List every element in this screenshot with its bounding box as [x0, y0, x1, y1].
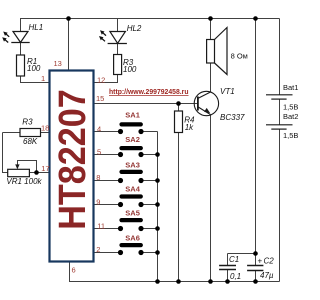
- svg-text:SA3: SA3: [125, 160, 140, 169]
- wire pin 13: [68, 19, 70, 71]
- svg-text:17: 17: [41, 164, 49, 173]
- svg-text:1: 1: [41, 74, 45, 83]
- labels SA1-SA6: [125, 111, 140, 243]
- svg-text:1,5B: 1,5B: [283, 131, 298, 140]
- svg-text:13: 13: [54, 59, 62, 68]
- svg-text:Bat1: Bat1: [283, 83, 298, 92]
- LED HL1 arrows: [2, 32, 9, 43]
- svg-text:http://www.299792458.ru: http://www.299792458.ru: [109, 87, 189, 96]
- svg-text:C1: C1: [229, 255, 239, 264]
- wire HL1 branch: [21, 19, 50, 83]
- switch SA2: [118, 146, 144, 157]
- svg-text:Bat2: Bat2: [283, 112, 298, 121]
- svg-text:BC337: BC337: [220, 113, 245, 122]
- resistor R4: [175, 111, 183, 133]
- svg-text:0,1: 0,1: [230, 272, 241, 281]
- svg-text:9: 9: [96, 197, 100, 206]
- wire right column node: [255, 19, 257, 282]
- label R3 68K: [22, 118, 38, 146]
- potentiometer VR1: [8, 169, 30, 176]
- node rail C2: [253, 279, 258, 284]
- svg-text:SA2: SA2: [125, 135, 140, 144]
- wire SA1 row: [94, 131, 158, 133]
- capacitor C2: [247, 266, 263, 271]
- svg-text:C2: C2: [264, 256, 275, 265]
- battery Bat1: [266, 95, 293, 99]
- svg-text:68K: 68K: [23, 137, 38, 146]
- labels batteries: [283, 83, 298, 140]
- svg-text:VT1: VT1: [220, 87, 235, 96]
- LED HL1: [11, 32, 29, 43]
- node rail emitter: [208, 279, 213, 284]
- resistor R3 68K: [20, 129, 41, 137]
- switch SA4: [118, 194, 144, 207]
- svg-text:8: 8: [96, 173, 100, 182]
- svg-text:100: 100: [27, 64, 41, 73]
- node riser SA3: [155, 178, 160, 183]
- node pin13 top: [66, 16, 71, 21]
- svg-text:4: 4: [97, 124, 101, 133]
- svg-text:8 Ом: 8 Ом: [231, 52, 248, 61]
- label VT1: [220, 87, 245, 122]
- node riser SA4: [155, 202, 160, 207]
- svg-text:+: +: [258, 256, 263, 265]
- wire C1 branch: [228, 254, 256, 282]
- wire SA4 row: [94, 204, 158, 206]
- node rail R4: [176, 279, 181, 284]
- svg-text:SA1: SA1: [125, 111, 140, 120]
- wire switch riser: [157, 132, 159, 282]
- svg-text:1k: 1k: [185, 123, 194, 132]
- wire R3 68K net: [3, 133, 50, 173]
- svg-text:6: 6: [72, 266, 76, 275]
- pin number labels: [41, 59, 105, 275]
- svg-text:HL1: HL1: [29, 23, 44, 32]
- switch SA6: [118, 243, 144, 255]
- node speaker top: [208, 16, 213, 21]
- svg-text:11: 11: [97, 222, 105, 231]
- svg-text:R3: R3: [22, 118, 33, 127]
- resistor R1: [17, 55, 25, 76]
- svg-text:47µ: 47µ: [260, 271, 274, 280]
- wire HL2 branch: [94, 19, 118, 83]
- speaker BA1: [207, 28, 227, 75]
- svg-text:HT82207: HT82207: [50, 89, 93, 229]
- battery Bat2: [266, 125, 293, 129]
- svg-text:VR1 100k: VR1 100k: [6, 177, 42, 186]
- wire VR1 wiper: [18, 161, 37, 173]
- wire SA2 row: [94, 154, 158, 156]
- svg-text:18: 18: [41, 123, 49, 132]
- wire SA6 row: [94, 252, 158, 254]
- wire R4 leads: [178, 104, 180, 282]
- switch SA5: [118, 218, 144, 231]
- wire emitter down: [210, 115, 212, 282]
- node VR1 wiper: [34, 170, 39, 175]
- wire SA5 row: [94, 228, 158, 230]
- node riser SA5: [155, 226, 160, 231]
- resistor R3 (HL2): [114, 55, 122, 75]
- svg-text:15: 15: [96, 94, 104, 103]
- wire bottom rail: [70, 262, 280, 282]
- svg-text:SA5: SA5: [125, 208, 140, 217]
- svg-text:1,5B: 1,5B: [283, 103, 298, 112]
- wire top rail: [20, 18, 280, 20]
- IC U1 HT82207 box: [50, 71, 94, 262]
- svg-text:100: 100: [123, 65, 137, 74]
- node rail SA riser: [155, 279, 160, 284]
- svg-text:SA4: SA4: [125, 185, 140, 194]
- switch SA3: [118, 170, 144, 183]
- switch SA1: [118, 122, 144, 134]
- wire battery column: [279, 19, 281, 282]
- node riser SA6: [155, 250, 160, 255]
- svg-text:HL2: HL2: [127, 24, 142, 33]
- label R4 value: [184, 116, 195, 133]
- node C1 branch: [253, 251, 258, 256]
- node riser SA2: [155, 152, 160, 157]
- LED HL2: [108, 32, 127, 44]
- label C2: [258, 256, 275, 280]
- node R4 top: [176, 101, 181, 106]
- svg-text:12: 12: [97, 75, 105, 84]
- label R3 value (HL2): [123, 58, 137, 74]
- wire pin 15 to base: [94, 103, 198, 105]
- VT1 emitter arrowhead: [204, 108, 210, 113]
- svg-text:5: 5: [97, 148, 101, 157]
- svg-text:2: 2: [96, 245, 100, 254]
- wire SA3 row: [94, 180, 158, 182]
- wire speaker to collector: [210, 19, 212, 93]
- label C1: [229, 255, 241, 281]
- transistor VT1: [194, 91, 218, 115]
- label R1 value: [27, 57, 41, 73]
- LED HL2 arrows: [99, 30, 106, 41]
- svg-text:SA6: SA6: [125, 234, 140, 243]
- node right column top: [253, 16, 258, 21]
- VR1 wiper arrowhead: [15, 164, 19, 169]
- capacitor C1: [219, 266, 236, 270]
- node rail C1: [225, 279, 230, 284]
